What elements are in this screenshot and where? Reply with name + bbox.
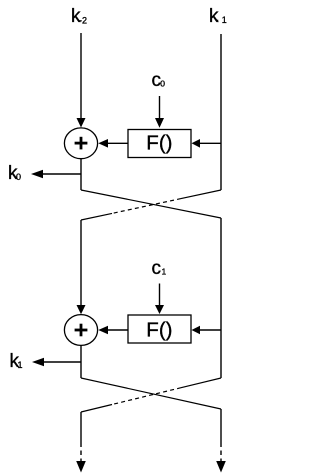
arrowhead into F-box U1 right	[192, 139, 201, 148]
wire: k0 output branch	[42, 173, 81, 175]
wire: XOR A2 output down	[80, 345, 82, 378]
wire: c0 to F-box U1	[159, 96, 161, 119]
node c0 label	[152, 70, 166, 91]
arrowhead into XOR A1 right	[98, 139, 108, 148]
svg-text:-2: -2	[79, 15, 87, 25]
wire: k-1 input vertical	[220, 34, 222, 190]
arrowhead k0 left	[31, 170, 43, 178]
svg-text:1: 1	[18, 360, 23, 370]
arrowhead k1 left	[32, 358, 44, 366]
F-box U2	[128, 315, 191, 343]
wire: XOR A1 output down	[80, 159, 82, 190]
wire: bottom right output	[220, 409, 222, 461]
wire: crossing X2 right-to-left (dashed middle)	[81, 378, 221, 412]
svg-text:0: 0	[160, 79, 165, 89]
F-box U1	[128, 130, 191, 158]
wire: k1 output branch	[43, 361, 81, 363]
wire: right vertical branch into F-box U1	[199, 142, 221, 144]
wire: c1 to F-box U2	[159, 284, 161, 307]
arrowhead into XOR A2 top	[77, 305, 86, 314]
svg-text:0: 0	[16, 172, 21, 182]
wire: bottom left output	[80, 412, 82, 461]
wire: k-2 input vertical	[80, 33, 82, 119]
arrowhead into F-box U1 top	[155, 118, 164, 128]
arrowhead into F-box U2 right	[192, 326, 201, 335]
arrowhead into XOR A2 right	[98, 326, 108, 335]
wire: crossing X1 right-to-left (dashed middle)	[81, 190, 221, 220]
node k1 label	[10, 351, 23, 372]
wire: right vertical branch into F-box U2	[199, 329, 221, 331]
wire: crossing X1 solid left-to-right	[81, 190, 221, 218]
svg-text:F(): F()	[146, 132, 172, 155]
wire: right vertical between crossings	[220, 218, 222, 378]
wire: F-box U2 to XOR A2	[107, 329, 128, 331]
node k0 label	[8, 163, 21, 184]
arrowhead bottom right	[216, 461, 226, 473]
arrowhead bottom left	[76, 461, 86, 473]
XOR adder A2	[64, 315, 97, 346]
svg-text:-: -	[216, 15, 219, 25]
svg-text:1: 1	[222, 15, 227, 25]
wire: crossing X2 solid left-to-right	[81, 378, 221, 409]
wire: left vertical to XOR A2	[80, 220, 82, 306]
wire: F-box U1 to XOR A1	[107, 142, 128, 144]
svg-text:c: c	[152, 258, 162, 279]
svg-text:F(): F()	[146, 319, 172, 342]
arrowhead into XOR A1 top	[77, 118, 86, 128]
node c1 label	[152, 258, 167, 279]
XOR adder A1	[64, 128, 97, 159]
node k-1 label	[209, 6, 227, 27]
arrowhead into F-box U2 top	[155, 305, 164, 314]
svg-text:1: 1	[162, 267, 167, 277]
node k-2 label	[71, 6, 87, 27]
